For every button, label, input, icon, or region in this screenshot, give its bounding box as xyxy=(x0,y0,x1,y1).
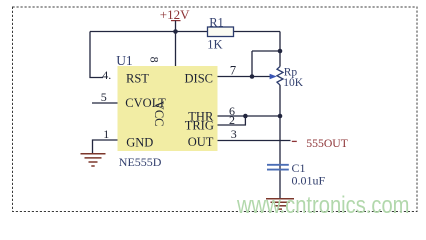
potentiometer Rp zigzag xyxy=(277,67,283,86)
svg-text:555OUT: 555OUT xyxy=(306,137,348,150)
svg-text:0.01uF: 0.01uF xyxy=(292,173,326,187)
wire pin 7 from DISC xyxy=(218,76,271,78)
junction pin6/pot column xyxy=(278,114,283,119)
svg-text:8: 8 xyxy=(147,57,161,63)
wiper arrow of Rp xyxy=(270,74,277,80)
capacitor C1 plates xyxy=(267,165,289,170)
wire pin 5 CVOLT stub xyxy=(92,102,118,104)
junction pin6/pin2 tie xyxy=(243,114,248,119)
resistor R1 xyxy=(208,27,234,37)
wire pin 3 OUT xyxy=(218,140,291,142)
wire branch vertical xyxy=(251,51,253,77)
wire pot bottom down to ground through C1 xyxy=(279,85,281,198)
wire left vertical to pin 4 xyxy=(90,32,103,78)
svg-text:www.cntronics.com: www.cntronics.com xyxy=(236,191,409,218)
wire branch horizontal xyxy=(252,50,280,52)
net stub 555OUT tick xyxy=(292,140,297,142)
wire top rail right (R1 to pot column) xyxy=(234,31,281,33)
svg-text:TRIG: TRIG xyxy=(185,119,214,133)
wire pin 6 THR xyxy=(218,115,281,117)
ground symbol bottom xyxy=(266,199,294,209)
svg-text:NE555D: NE555D xyxy=(119,155,162,169)
wire pin 2 TRIG xyxy=(218,116,246,125)
svg-text:7: 7 xyxy=(230,63,236,77)
svg-text:GND: GND xyxy=(126,135,153,149)
wire top rail left (+12V rail to R1) xyxy=(90,31,208,33)
svg-text:R1: R1 xyxy=(209,15,224,29)
svg-text:1: 1 xyxy=(103,127,109,141)
wire pin 1 GND to ground xyxy=(93,140,118,153)
svg-text:OUT: OUT xyxy=(188,135,214,149)
svg-text:RST: RST xyxy=(126,71,149,85)
svg-text:+12V: +12V xyxy=(160,7,190,22)
svg-text:2: 2 xyxy=(229,113,235,127)
IC U1 body xyxy=(118,66,218,151)
ground symbol left xyxy=(81,154,106,166)
svg-text:1K: 1K xyxy=(207,38,222,52)
svg-text:VCC: VCC xyxy=(152,101,166,127)
wire pot column down xyxy=(279,32,281,67)
svg-text:10K: 10K xyxy=(283,77,304,89)
wire VCC drop to pin 8 xyxy=(175,21,177,66)
junction at +12V rail xyxy=(173,29,178,34)
svg-text:DISC: DISC xyxy=(185,71,213,85)
svg-text:U1: U1 xyxy=(116,53,133,68)
svg-text:4.: 4. xyxy=(102,68,111,82)
power bar xyxy=(171,20,181,22)
junction pin7 wire xyxy=(250,74,255,79)
svg-text:5: 5 xyxy=(101,90,107,104)
svg-text:3: 3 xyxy=(231,127,237,141)
junction pot top branch xyxy=(278,49,283,54)
